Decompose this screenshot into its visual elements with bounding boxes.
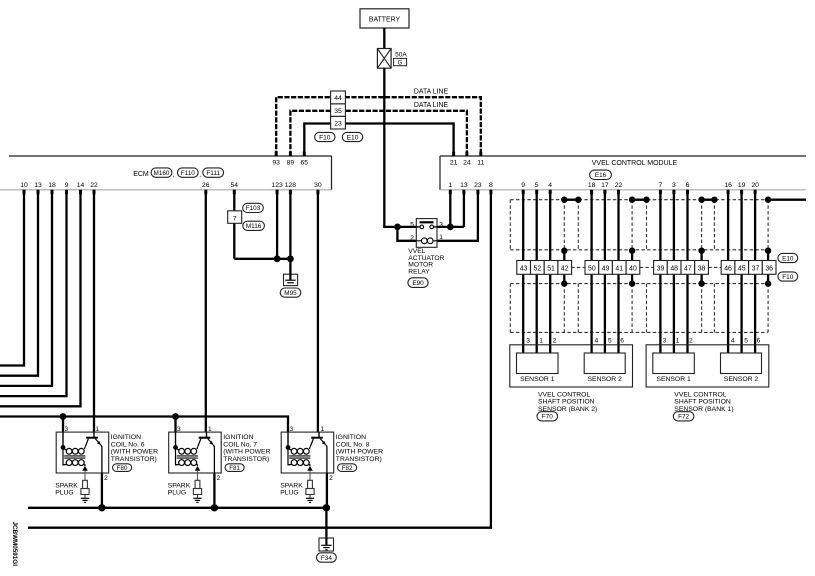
sensor wires group 3 bbox=[660, 190, 687, 353]
svg-text:(WITH POWER: (WITH POWER bbox=[336, 449, 383, 456]
wire: ECM pin 30 to coil 8 bbox=[317, 190, 319, 432]
svg-text:18: 18 bbox=[48, 182, 56, 189]
wire: battery to fuse bbox=[383, 28, 385, 49]
svg-text:F72: F72 bbox=[678, 414, 689, 421]
wire: battery feed to relay coil bbox=[397, 227, 416, 241]
sensor 1 box (bank 1) bbox=[653, 353, 695, 374]
svg-text:F10: F10 bbox=[782, 274, 793, 281]
wire: ECM pin 128 down to ground bbox=[289, 190, 291, 274]
svg-text:JCBWM0591GI: JCBWM0591GI bbox=[11, 522, 18, 567]
svg-text:2: 2 bbox=[329, 475, 333, 482]
svg-text:6: 6 bbox=[686, 182, 690, 189]
svg-text:COIL No. 8: COIL No. 8 bbox=[336, 441, 370, 448]
wire: ECM pin 123 down bbox=[276, 190, 278, 259]
shield drain group 2 bbox=[629, 197, 650, 287]
svg-text:23: 23 bbox=[474, 182, 482, 189]
sensor 2 box (bank 2) bbox=[584, 353, 625, 374]
label: IGNITION COIL No.6 bbox=[111, 434, 158, 463]
sensor wires group 4 bbox=[728, 190, 755, 353]
svg-text:23: 23 bbox=[334, 121, 342, 128]
svg-text:4: 4 bbox=[595, 338, 599, 345]
svg-text:F10: F10 bbox=[319, 134, 331, 141]
sensor wires group 2 bbox=[592, 190, 619, 353]
svg-text:89: 89 bbox=[287, 160, 295, 167]
connector pins 44/35/23 (F10-E10 pass-through) bbox=[331, 91, 346, 129]
junction dot pin 123 bbox=[274, 255, 281, 262]
svg-text:SPARK: SPARK bbox=[55, 482, 78, 489]
sensor 2 box (bank 1) bbox=[721, 353, 762, 374]
spark plug for coil 7 bbox=[193, 473, 201, 502]
shield: upper dashed boxes bbox=[510, 200, 768, 251]
svg-text:49: 49 bbox=[602, 266, 610, 273]
svg-text:22: 22 bbox=[90, 182, 98, 189]
VVEL control module box bbox=[440, 156, 806, 190]
label: SPARK PLUG (coil 6) bbox=[55, 482, 78, 496]
svg-text:1: 1 bbox=[96, 426, 100, 433]
svg-text:SENSOR 2: SENSOR 2 bbox=[588, 376, 623, 383]
svg-text:52: 52 bbox=[534, 266, 542, 273]
svg-text:1: 1 bbox=[448, 182, 452, 189]
svg-text:SENSOR 1: SENSOR 1 bbox=[656, 376, 691, 383]
wire: ECM pin 54 through joint 7 to junction bbox=[234, 190, 290, 259]
wire: data line 1 (ECM 93 to VVEL 11, dashed) bbox=[276, 97, 481, 156]
spark plug for coil 8 bbox=[306, 473, 314, 502]
svg-text:3: 3 bbox=[177, 426, 181, 433]
svg-text:50A: 50A bbox=[395, 51, 407, 58]
connector M160 bbox=[151, 168, 172, 177]
wire: data line 2 (ECM 89 to VVEL 24, dashed) bbox=[290, 111, 467, 156]
label: SPARK PLUG (coil 8) bbox=[280, 482, 303, 496]
svg-text:VVEL CONTROL: VVEL CONTROL bbox=[674, 391, 726, 398]
ECM bottom pins bbox=[20, 182, 322, 194]
ground M95 bbox=[284, 274, 298, 285]
svg-text:3: 3 bbox=[439, 221, 443, 228]
svg-text:20: 20 bbox=[751, 182, 759, 189]
connector E90 bbox=[408, 278, 428, 288]
svg-text:F82: F82 bbox=[342, 465, 353, 472]
svg-text:M95: M95 bbox=[284, 290, 297, 297]
wire: supply drop to coil 7 pin 3 bbox=[174, 417, 176, 433]
VVEL top pins 21 24 11 bbox=[450, 152, 485, 167]
svg-text:3: 3 bbox=[65, 426, 69, 433]
svg-text:PLUG: PLUG bbox=[280, 490, 299, 497]
svg-text:5: 5 bbox=[535, 182, 539, 189]
svg-text:F103: F103 bbox=[246, 205, 261, 212]
svg-text:7: 7 bbox=[659, 182, 663, 189]
wire: coil 7 pin 2 to ground bus bbox=[213, 473, 215, 508]
svg-text:2: 2 bbox=[217, 475, 221, 482]
svg-text:F70: F70 bbox=[542, 414, 553, 421]
svg-text:ECM: ECM bbox=[133, 171, 149, 178]
svg-text:40: 40 bbox=[629, 266, 637, 273]
label: SPARK PLUG (coil 7) bbox=[168, 482, 191, 496]
svg-text:E10: E10 bbox=[782, 255, 794, 262]
svg-text:9: 9 bbox=[521, 182, 525, 189]
svg-text:9: 9 bbox=[65, 182, 69, 189]
svg-text:E90: E90 bbox=[412, 280, 424, 287]
svg-text:DATA LINE: DATA LINE bbox=[414, 102, 449, 109]
svg-text:,: , bbox=[173, 172, 175, 179]
svg-text:37: 37 bbox=[752, 266, 760, 273]
svg-text:44: 44 bbox=[334, 95, 342, 102]
connector F80 bbox=[113, 464, 132, 472]
svg-text:E16: E16 bbox=[595, 172, 607, 179]
wire: ECM pin 22 to coil 6 bbox=[93, 190, 95, 432]
wire: bus to ground F34 bbox=[325, 508, 327, 538]
wire: ECM pin 14 to left margin bbox=[0, 190, 81, 406]
svg-text:38: 38 bbox=[698, 266, 706, 273]
connector F81 bbox=[225, 464, 244, 472]
wire: ECM pin 26 to coil 7 bbox=[205, 190, 207, 432]
svg-text:TRANSISTOR): TRANSISTOR) bbox=[336, 456, 382, 463]
wire: coil 6 pin 2 to ground bus bbox=[101, 473, 103, 508]
battery B1 bbox=[360, 9, 409, 28]
sensor pin labels bank 2 bbox=[526, 338, 624, 345]
svg-text:43: 43 bbox=[520, 266, 528, 273]
svg-text:3: 3 bbox=[290, 426, 294, 433]
connector F111 bbox=[203, 168, 224, 177]
ground F34 bbox=[319, 538, 334, 551]
VVEL shaft position sensor (bank 1) outer box bbox=[646, 345, 769, 387]
shield drain group 1 bbox=[561, 197, 581, 287]
connector F110 bbox=[177, 168, 198, 177]
connector E16 bbox=[590, 170, 612, 179]
wire: ECM pin 18 to left margin bbox=[0, 190, 52, 386]
svg-text:F34: F34 bbox=[321, 555, 332, 562]
wire: ECM 65 to VVEL 21 bbox=[304, 124, 453, 157]
svg-text:G: G bbox=[398, 60, 403, 67]
connector F10 bbox=[315, 132, 335, 141]
svg-text:IGNITION: IGNITION bbox=[223, 434, 253, 441]
svg-text:(WITH POWER: (WITH POWER bbox=[111, 449, 158, 456]
harness connector row E10/F10 bbox=[517, 261, 776, 275]
svg-text:13: 13 bbox=[34, 182, 42, 189]
VVEL bottom pins bbox=[448, 182, 759, 194]
svg-text:2: 2 bbox=[410, 235, 414, 242]
svg-text:6: 6 bbox=[757, 338, 761, 345]
svg-text:21: 21 bbox=[450, 160, 458, 167]
svg-text:26: 26 bbox=[202, 182, 210, 189]
label: VVEL CONTROL SHAFT POSITION SENSOR (BANK 1) bbox=[674, 391, 733, 412]
svg-text:3: 3 bbox=[663, 338, 667, 345]
connector M116 bbox=[243, 221, 265, 230]
shield: lower dashed boxes bbox=[510, 284, 768, 333]
svg-text:IGNITION: IGNITION bbox=[111, 434, 141, 441]
svg-text:41: 41 bbox=[615, 266, 623, 273]
svg-text:3: 3 bbox=[526, 338, 530, 345]
svg-text:4: 4 bbox=[731, 338, 735, 345]
svg-text:TRANSISTOR): TRANSISTOR) bbox=[111, 456, 157, 463]
wire: VVEL pin 1 and 13 to relay contact bbox=[437, 190, 464, 227]
svg-text:128: 128 bbox=[285, 182, 297, 189]
ignition coil No.8 F82 bbox=[281, 426, 334, 473]
junction dot coil7 supply bbox=[172, 413, 179, 420]
svg-text:3: 3 bbox=[672, 182, 676, 189]
svg-text:19: 19 bbox=[738, 182, 746, 189]
connector F103 bbox=[243, 203, 264, 212]
svg-text:M160: M160 bbox=[154, 170, 170, 177]
junction dot at relay feed bbox=[394, 224, 401, 231]
svg-text:SPARK: SPARK bbox=[168, 482, 191, 489]
wire: coil supply bus from left margin bbox=[0, 417, 288, 433]
junction dot at relay contact output bbox=[447, 224, 454, 231]
svg-text:2: 2 bbox=[553, 338, 557, 345]
connector F10 (right) bbox=[778, 272, 798, 281]
wire: ECM pin 10 to left margin bbox=[0, 190, 24, 366]
svg-text:47: 47 bbox=[684, 266, 692, 273]
svg-text:17: 17 bbox=[601, 182, 609, 189]
svg-text:7: 7 bbox=[233, 215, 237, 222]
svg-text:RELAY: RELAY bbox=[408, 268, 430, 275]
svg-text:F81: F81 bbox=[229, 465, 240, 472]
svg-text:39: 39 bbox=[657, 266, 665, 273]
svg-text:SENSOR 2: SENSOR 2 bbox=[724, 376, 759, 383]
svg-text:F80: F80 bbox=[117, 465, 128, 472]
svg-text:5: 5 bbox=[744, 338, 748, 345]
fuse 50A bbox=[377, 49, 407, 69]
connector F72 bbox=[673, 412, 694, 421]
svg-text:F111: F111 bbox=[206, 170, 220, 177]
junction dot coil7 ground bbox=[211, 504, 218, 511]
svg-text:SHAFT POSITION: SHAFT POSITION bbox=[674, 399, 731, 406]
sensor wires group 1 bbox=[523, 190, 550, 353]
ignition coil No.6 F80 bbox=[56, 426, 108, 473]
svg-text:IGNITION: IGNITION bbox=[336, 434, 366, 441]
junction dot coil8 ground / F34 tap bbox=[323, 504, 330, 511]
svg-text:COIL No. 6: COIL No. 6 bbox=[111, 441, 145, 448]
label: VVEL ACTUATOR MOTOR RELAY bbox=[408, 248, 444, 275]
svg-text:PLUG: PLUG bbox=[55, 490, 74, 497]
sensor 1 box (bank 2) bbox=[517, 353, 559, 374]
svg-text:SPARK: SPARK bbox=[280, 482, 303, 489]
connector F82 bbox=[338, 464, 357, 472]
wire: VVEL pin 8 to left bus bbox=[28, 190, 491, 528]
svg-text:F110: F110 bbox=[181, 170, 196, 177]
svg-text:BATTERY: BATTERY bbox=[369, 17, 401, 24]
svg-text:8: 8 bbox=[489, 182, 493, 189]
svg-text:1: 1 bbox=[539, 338, 543, 345]
connector M95 bbox=[280, 288, 301, 297]
wire: supply drop to coil 6 pin 3 bbox=[62, 417, 64, 433]
svg-text:2: 2 bbox=[689, 338, 693, 345]
svg-text:11: 11 bbox=[477, 160, 484, 167]
svg-text:2: 2 bbox=[104, 475, 108, 482]
svg-text:51: 51 bbox=[547, 266, 555, 273]
svg-text:93: 93 bbox=[272, 160, 280, 167]
svg-text:1: 1 bbox=[676, 338, 680, 345]
svg-text:10: 10 bbox=[20, 182, 28, 189]
svg-text:35: 35 bbox=[334, 108, 342, 115]
wire: coil ground bus bbox=[28, 507, 326, 509]
svg-text:5: 5 bbox=[410, 221, 414, 228]
joint connector 7 bbox=[228, 211, 242, 224]
wire: relay pin1 to VVEL pin 23 bbox=[437, 190, 478, 241]
svg-text:PLUG: PLUG bbox=[168, 490, 187, 497]
svg-text:(WITH POWER: (WITH POWER bbox=[223, 449, 270, 456]
wire: coil 8 pin 2 to ground bus bbox=[326, 473, 328, 508]
svg-text:TRANSISTOR): TRANSISTOR) bbox=[223, 456, 269, 463]
svg-text:36: 36 bbox=[765, 266, 773, 273]
shield drain group 3 bbox=[698, 197, 717, 287]
wire: ECM pin 9 to left margin bbox=[0, 190, 67, 396]
svg-text:48: 48 bbox=[670, 266, 678, 273]
svg-text:14: 14 bbox=[77, 182, 85, 189]
wire: ECM pin 13 to left margin bbox=[0, 190, 38, 376]
svg-text:COIL No. 7: COIL No. 7 bbox=[223, 441, 257, 448]
svg-text:1: 1 bbox=[321, 426, 325, 433]
svg-text:50: 50 bbox=[588, 266, 596, 273]
connector F34 bbox=[317, 553, 337, 562]
connector E10 (right) bbox=[778, 253, 798, 262]
junction dot coil6 supply bbox=[60, 413, 67, 420]
svg-text:VVEL CONTROL MODULE: VVEL CONTROL MODULE bbox=[592, 160, 678, 167]
svg-text:46: 46 bbox=[724, 266, 732, 273]
ignition coil No.7 F81 bbox=[169, 426, 222, 473]
svg-text:M116: M116 bbox=[246, 223, 262, 230]
connector F70 bbox=[537, 412, 558, 421]
VVEL actuator motor relay E90 bbox=[410, 219, 443, 248]
label: VVEL CONTROL SHAFT POSITION SENSOR (BANK 2) bbox=[538, 391, 597, 412]
label: IGNITION COIL No.8 bbox=[336, 434, 383, 463]
wire: fuse down to relay junction bbox=[383, 68, 385, 227]
connector E10 bbox=[342, 132, 362, 141]
svg-text:45: 45 bbox=[738, 266, 746, 273]
svg-text:24: 24 bbox=[463, 160, 471, 167]
junction dot coil6 ground bbox=[98, 504, 105, 511]
svg-text:VVEL CONTROL: VVEL CONTROL bbox=[538, 391, 590, 398]
svg-text:E10: E10 bbox=[347, 134, 359, 141]
svg-text:30: 30 bbox=[314, 182, 322, 189]
svg-text:18: 18 bbox=[588, 182, 596, 189]
junction dot pin 128 bbox=[287, 255, 294, 262]
shield drain group 4 bbox=[765, 197, 771, 287]
svg-text:1: 1 bbox=[439, 234, 443, 241]
svg-text:6: 6 bbox=[620, 338, 624, 345]
svg-text:SENSOR 1: SENSOR 1 bbox=[520, 376, 555, 383]
ECM top pins 93 89 65 bbox=[272, 152, 308, 167]
svg-text:123: 123 bbox=[271, 182, 283, 189]
svg-text:42: 42 bbox=[561, 266, 569, 273]
svg-text:22: 22 bbox=[615, 182, 623, 189]
VVEL shaft position sensor (bank 2) outer box bbox=[510, 345, 633, 387]
svg-text:SHAFT POSITION: SHAFT POSITION bbox=[538, 399, 595, 406]
svg-text:54: 54 bbox=[231, 182, 239, 189]
ECM module box bbox=[0, 156, 332, 190]
svg-text:,: , bbox=[199, 172, 201, 179]
sensor pin labels bank 1 bbox=[663, 338, 761, 345]
svg-text:1: 1 bbox=[208, 426, 212, 433]
label: IGNITION COIL No.7 bbox=[223, 434, 270, 463]
svg-text:DATA LINE: DATA LINE bbox=[414, 89, 449, 96]
svg-text:4: 4 bbox=[548, 182, 552, 189]
svg-text:16: 16 bbox=[724, 182, 732, 189]
svg-text:13: 13 bbox=[460, 182, 468, 189]
spark plug for coil 6 bbox=[81, 473, 89, 502]
shield drain to page edge bbox=[768, 198, 806, 200]
svg-text:5: 5 bbox=[608, 338, 612, 345]
svg-text:65: 65 bbox=[301, 160, 309, 167]
